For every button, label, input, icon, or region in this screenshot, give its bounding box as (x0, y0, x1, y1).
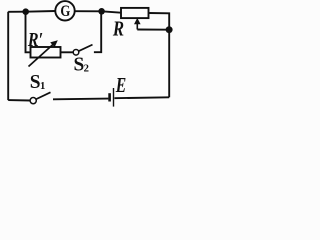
switch S1 contact circle (30, 98, 36, 104)
wire node B to resistor R (102, 11, 121, 12)
switch S2 lever (79, 45, 93, 52)
svg-text:1: 1 (40, 80, 45, 92)
svg-text:2: 2 (84, 62, 89, 74)
svg-text:R′: R′ (27, 28, 43, 50)
wire battery to bottom-right corner (114, 96, 169, 99)
wire top-left corner to node A (8, 11, 26, 13)
wire bottom-left corner to switch S1 (8, 99, 30, 101)
rheostat R' box (31, 47, 61, 58)
wire switch S1 to battery (53, 98, 108, 101)
switch S2 contact circle (73, 50, 79, 56)
wire rheostat R' to switch S2 (61, 51, 74, 53)
wire node A down and to rheostat R' (26, 12, 31, 53)
wiper arrow of R (134, 18, 141, 30)
svg-text:E: E (115, 74, 126, 98)
wire galvanometer to node B (75, 10, 102, 12)
wire node A to galvanometer (26, 10, 56, 13)
rheostat R' diagonal arrow (29, 40, 58, 66)
svg-text:R: R (112, 18, 124, 41)
galvanometer U: circle (55, 1, 74, 20)
wire left vertical (7, 12, 9, 100)
wire wiper of R to node C (137, 29, 169, 31)
svg-text:G: G (60, 3, 70, 21)
resistor R box (121, 8, 149, 18)
wire resistor R to top-right corner and right vertical down (149, 13, 170, 97)
switch S1 lever (36, 92, 50, 99)
battery E negative plate (short thick) (108, 93, 111, 101)
wire switch S2 corner up to node B (94, 11, 101, 52)
node A junction dot (22, 8, 29, 15)
node B junction dot (98, 8, 105, 15)
battery E positive plate (long thin) (113, 88, 115, 107)
node C junction dot (166, 26, 173, 33)
svg-text:S: S (30, 71, 41, 93)
